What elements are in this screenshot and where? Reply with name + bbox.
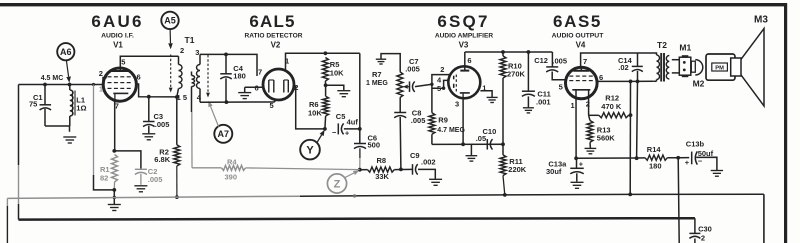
svg-text:33K: 33K: [375, 172, 389, 181]
node pin5 link: [442, 87, 445, 90]
tube V4 envelope: [566, 67, 598, 99]
V4 grid dashes: [569, 76, 593, 81]
svg-text:M2: M2: [693, 79, 705, 89]
tube V1 envelope: [103, 68, 136, 101]
node R12 at riser: [629, 113, 633, 117]
svg-text:10K: 10K: [330, 68, 344, 77]
wire V4 pin6 screen row: [597, 80, 654, 82]
arrow from Z to detector output node: [344, 170, 359, 178]
label R10: [508, 62, 522, 71]
label R2: [159, 148, 169, 157]
label C12 value: [552, 57, 567, 66]
node R1 bottom: [112, 188, 116, 192]
label C1: [33, 93, 43, 102]
label R8: [377, 156, 387, 165]
label R13 value 560K: [597, 134, 616, 143]
svg-text:+: +: [345, 129, 350, 138]
label R6 value: [308, 108, 322, 117]
T1 right core dashed: [206, 55, 210, 98]
svg-text:6AU6: 6AU6: [91, 12, 143, 31]
pin 4 label T1: [197, 93, 202, 102]
resistor R14: [645, 155, 678, 160]
wire V3 cathode row: [432, 143, 503, 145]
node pin3 row: [461, 142, 465, 146]
label C13a: [548, 159, 567, 168]
V3 cathode: [460, 93, 470, 98]
svg-text:6SQ7: 6SQ7: [437, 12, 489, 31]
label R9 value 4.7 MEG: [437, 127, 465, 134]
label M1: [679, 43, 691, 53]
ground below C9: [429, 179, 442, 185]
svg-text:C30: C30: [698, 225, 712, 234]
svg-text:AUDIO OUTPUT: AUDIO OUTPUT: [552, 33, 605, 40]
wire V4 pin1 cathode down: [575, 90, 577, 159]
label C6 value 500: [368, 141, 381, 150]
svg-text:A7: A7: [218, 129, 230, 139]
svg-text:T2: T2: [657, 40, 667, 50]
wire V2 pin1 up: [286, 53, 360, 69]
callout Z: [327, 174, 346, 193]
svg-text:10K: 10K: [308, 108, 322, 117]
T2 primary winding: [654, 55, 660, 81]
capacitor C13b: [678, 151, 717, 170]
arrow from A5 to T1 core: [168, 29, 173, 49]
label C11 value: [536, 97, 551, 106]
border frame right edge: [784, 3, 787, 243]
V1 plate: [109, 68, 130, 71]
label C1 value 75: [29, 100, 37, 109]
callout A7: [214, 125, 232, 143]
node C4 top: [224, 53, 228, 57]
svg-text:6: 6: [137, 73, 141, 82]
C13a plus sign: [579, 162, 583, 169]
svg-text:.002: .002: [421, 157, 436, 166]
label C30 value 2: [701, 233, 705, 242]
resistor R5: [322, 58, 328, 82]
label R13: [597, 125, 611, 134]
label C7: [409, 57, 419, 66]
label C10: [483, 127, 497, 136]
capacitor C9: [413, 164, 436, 179]
wire R6 bottom: [324, 116, 327, 129]
svg-text:1: 1: [571, 101, 575, 110]
svg-text:4uf: 4uf: [347, 118, 359, 127]
C13b plus sign: [685, 158, 690, 167]
svg-text:82: 82: [100, 173, 108, 182]
label C2: [148, 167, 158, 176]
T1 tertiary lead gray: [191, 112, 193, 165]
wire detector node drop: [359, 53, 361, 129]
connector M1: [679, 55, 691, 77]
capacitor C14 in line: [632, 53, 643, 81]
node on gray bus at R1: [113, 196, 116, 199]
C5 plus sign: [345, 129, 350, 138]
svg-text:T1: T1: [185, 35, 195, 45]
label R7: [372, 70, 382, 79]
node C8 bottom: [399, 168, 403, 172]
wire T1 pin3 top: [200, 54, 257, 76]
T2 secondary winding: [666, 56, 669, 80]
svg-text:+: +: [685, 158, 690, 167]
node R11 on B plus bus: [503, 193, 507, 197]
node Z junction: [358, 168, 362, 172]
label R1: [100, 165, 110, 174]
capacitor C12: [546, 52, 565, 80]
label C7 value: [405, 64, 420, 73]
svg-text:1: 1: [99, 86, 103, 93]
node T1 secondary bottom: [175, 95, 179, 99]
label C8: [412, 109, 422, 118]
wire plate to T2 primary: [638, 53, 657, 55]
arrow from A6 to grid node: [66, 61, 71, 83]
gray bus: [7, 194, 764, 198]
wire R9 bottom: [431, 134, 433, 144]
pin 3 label V3: [455, 100, 459, 109]
svg-text:−: −: [332, 128, 337, 137]
V4 plate: [573, 67, 589, 71]
label R9: [438, 115, 448, 124]
label C4 value 180: [233, 72, 246, 81]
label R11 value 220K: [508, 165, 527, 174]
wire R7 top to ground: [381, 54, 400, 72]
wire left drop gray mid: [18, 165, 20, 204]
wire V1 grid return lower: [94, 175, 115, 190]
wire R11 bottom: [503, 176, 505, 195]
T1 left winding: [177, 56, 182, 97]
svg-text:.05: .05: [476, 134, 486, 143]
resistor R1: [112, 155, 118, 183]
label V3: [459, 41, 469, 50]
label C30: [698, 225, 712, 234]
label C5: [336, 112, 346, 121]
svg-text:.005: .005: [155, 120, 170, 129]
svg-text:R7: R7: [372, 70, 382, 79]
node R5 R6 mid: [324, 83, 328, 87]
label C14 value: [618, 63, 628, 72]
pin 7 label V4: [583, 57, 587, 66]
wire T2 secondary to M1: [672, 60, 680, 73]
pin 5 label V2: [270, 101, 274, 110]
label L1 value: [76, 104, 86, 113]
svg-text:3: 3: [455, 100, 459, 109]
label V2: [271, 41, 281, 50]
svg-text:PM: PM: [715, 65, 724, 71]
svg-text:6AL5: 6AL5: [249, 12, 295, 31]
label R4 value 390: [225, 173, 238, 182]
capacitor C3: [143, 97, 155, 134]
label 4.5 MC: [41, 75, 64, 82]
svg-text:180: 180: [233, 72, 246, 81]
svg-text:C9: C9: [410, 151, 420, 160]
svg-text:RATIO DETECTOR: RATIO DETECTOR: [244, 33, 302, 40]
pin 1 label V4: [571, 101, 575, 110]
svg-text:A5: A5: [164, 16, 176, 26]
svg-text:.005: .005: [411, 116, 426, 125]
wire V2 pin6 to ground: [245, 86, 264, 88]
svg-text:C5: C5: [336, 112, 346, 121]
R7 wiper arrow: [403, 85, 410, 89]
label R12: [605, 93, 619, 102]
label M2: [693, 79, 705, 89]
svg-text:2: 2: [440, 65, 444, 74]
wire R5 R6 midpoint: [325, 81, 343, 90]
wire R2 bottom: [176, 166, 178, 197]
pin 4 label V3: [437, 75, 442, 84]
svg-text:4.5 MC: 4.5 MC: [41, 75, 64, 82]
label T1: [185, 35, 195, 45]
svg-text:220K: 220K: [508, 165, 527, 174]
ground below C13a: [571, 182, 584, 188]
label 6SQ7: [437, 12, 489, 31]
core of L1: [73, 91, 76, 116]
pin 7 label V2: [258, 68, 262, 77]
svg-text:5: 5: [121, 57, 125, 66]
pin 1 label V1: [99, 86, 103, 93]
label C11: [537, 89, 550, 98]
label 6AU6: [91, 12, 143, 31]
svg-text:3: 3: [195, 48, 199, 57]
wire junction drop to edge: [678, 158, 679, 243]
svg-text:180: 180: [649, 162, 662, 171]
V1 cathode: [113, 93, 128, 101]
V3 diode plates: [453, 76, 455, 88]
connector M2: [691, 60, 702, 75]
svg-text:5: 5: [270, 101, 274, 110]
label C8 value: [411, 116, 426, 125]
pin 6 label V3: [467, 56, 471, 65]
resistor R7 volume control: [397, 72, 403, 98]
pin 2 label T1: [180, 46, 184, 55]
label C13b: [686, 140, 705, 149]
label R14: [647, 145, 662, 154]
svg-text:AUDIO AMPLIFIER: AUDIO AMPLIFIER: [435, 33, 494, 40]
node C3 top: [147, 95, 151, 99]
svg-text:Y: Y: [306, 145, 314, 157]
resistor R9: [429, 113, 435, 135]
ground below R13: [585, 142, 597, 154]
ground below C3: [142, 134, 155, 140]
wire C1 to L1 bottom: [45, 126, 70, 132]
svg-text:1 MEG: 1 MEG: [366, 80, 388, 87]
wire V3 pins 4 5: [432, 80, 449, 88]
svg-text:R8: R8: [377, 156, 387, 165]
label RATIO DETECTOR: [244, 33, 302, 40]
label C14: [618, 56, 633, 65]
node L1 top: [68, 83, 72, 87]
svg-text:.02: .02: [618, 63, 628, 72]
pin 2 label V1: [99, 69, 103, 78]
pin 3 label T1: [195, 48, 199, 57]
resistor R11: [500, 144, 506, 175]
gray bus left vertical: [6, 198, 8, 243]
capacitor C1: [40, 85, 52, 127]
label R8 value 33K: [375, 172, 389, 181]
wire grid step: [103, 78, 107, 85]
wire cathode to C2: [114, 151, 141, 169]
pin 6 label V4: [599, 73, 603, 82]
label C3 value: [155, 120, 170, 129]
resistor R12: [589, 113, 631, 118]
svg-text:6: 6: [467, 56, 471, 65]
wire V1 grid return gray: [93, 85, 95, 176]
label M3: [754, 15, 768, 26]
svg-text:390: 390: [225, 173, 238, 182]
ground at R7 top: [376, 59, 386, 64]
capacitor C5: [338, 123, 360, 134]
label T2: [657, 40, 667, 50]
label C10 value: [476, 134, 486, 143]
capacitor C7: [410, 81, 432, 92]
svg-text:M3: M3: [754, 15, 768, 26]
arrow from Y to detector node: [317, 130, 325, 143]
label R2 value: [154, 155, 170, 164]
pin 2 label V3: [440, 65, 444, 74]
wire T1 pin5 to R2: [176, 97, 178, 145]
pin 5 label V1: [121, 57, 125, 66]
node V1 cathode junction: [112, 149, 116, 153]
resistor R13: [587, 115, 593, 142]
wire V1 pin6: [136, 84, 176, 97]
C13b minus sign: [698, 157, 703, 166]
pin 5 label V4: [559, 82, 563, 91]
wire bottom bus corner to C30: [694, 218, 696, 233]
label AUDIO I.F.: [101, 33, 134, 40]
capacitor C10: [487, 139, 503, 150]
svg-text:30uf: 30uf: [546, 167, 562, 176]
ground on pin4 wire: [238, 87, 251, 98]
pin 6 label V2: [255, 84, 259, 93]
node R2 on bus: [175, 195, 179, 199]
wire 4.5MC input: [19, 84, 104, 86]
V1 grid dashes: [108, 77, 131, 89]
ground on cathode row: [466, 144, 478, 161]
label V1: [113, 41, 123, 50]
wire left drop black upper: [18, 85, 20, 166]
wire T1 pin4 run: [200, 101, 275, 103]
label R10 value 270K: [507, 70, 526, 79]
wire V3 plate bus: [465, 51, 553, 53]
svg-text:AUDIO I.F.: AUDIO I.F.: [101, 33, 134, 40]
node V4 cathode junction: [574, 156, 578, 160]
node detector output: [358, 127, 362, 131]
svg-text:R4: R4: [227, 157, 237, 166]
wire C14 line down: [636, 81, 639, 158]
node on bus misc: [353, 194, 356, 197]
label AUDIO AMPLIFIER: [435, 33, 494, 40]
pin 2 label V4: [586, 99, 590, 108]
label C13b value 50uf: [698, 149, 714, 158]
T1 tertiary winding: [192, 72, 195, 113]
border frame top edge: [0, 3, 787, 6]
svg-text:R14: R14: [647, 145, 662, 154]
capacitor C4: [220, 54, 232, 102]
bottom bus: [19, 218, 695, 219]
wire R10 bottom to row: [502, 78, 504, 144]
wire V3 pin1 to ground: [480, 91, 492, 97]
callout A5: [161, 12, 178, 29]
node R10 top: [501, 50, 505, 54]
svg-text:270K: 270K: [507, 70, 526, 79]
ground below L1: [63, 137, 76, 143]
node C1 top: [43, 83, 47, 87]
resistor R4: [192, 165, 360, 171]
wire V1 cathode down: [114, 101, 116, 151]
label C12: [534, 56, 548, 65]
speaker magnet PM: [706, 54, 735, 80]
label R6: [309, 100, 319, 109]
wire R7 bottom to C8: [399, 98, 401, 113]
T2 core: [661, 53, 664, 82]
label R12 value 470 K: [601, 102, 622, 111]
label C9 value: [421, 157, 436, 166]
capacitor C13a: [570, 158, 584, 181]
pin 1 label V3: [482, 83, 486, 92]
wire C6 bottom gray: [359, 158, 361, 170]
wire V3 pin2: [432, 75, 450, 113]
pin 6 label V1: [137, 73, 141, 82]
label R4: [227, 157, 237, 166]
wire V4 pin7 up: [581, 53, 638, 67]
label R7 value 1 MEG: [366, 80, 388, 87]
C5 minus sign: [332, 128, 337, 137]
node cathode row C14 line: [635, 156, 639, 160]
svg-text:V1: V1: [113, 41, 123, 50]
arrow from A7 to T1 core: [208, 101, 218, 127]
pin 5 label V3: [437, 84, 441, 93]
node screen row feed: [629, 80, 633, 84]
node R14 C13b junction: [676, 156, 680, 160]
label R5 value: [330, 68, 344, 77]
resistor R10: [500, 52, 506, 78]
node screen row C14: [636, 80, 640, 84]
label C3: [154, 112, 164, 121]
T1 right winding: [197, 54, 200, 102]
label C5 value 4uf: [347, 118, 359, 127]
wire left drop black lower: [18, 204, 20, 220]
V3 plate: [460, 67, 469, 71]
ground below C11: [523, 108, 534, 113]
svg-text:1Ω: 1Ω: [76, 104, 86, 113]
svg-text:M1: M1: [679, 43, 691, 53]
label C2 value: [148, 175, 163, 184]
svg-text:2: 2: [180, 46, 184, 55]
V2 diode bars: [269, 80, 289, 93]
label V4: [576, 41, 586, 50]
wire V1 plate to T1: [120, 56, 178, 68]
svg-text:4.7 MEG: 4.7 MEG: [437, 127, 465, 134]
V4 cathode: [572, 89, 590, 91]
svg-text:A6: A6: [60, 47, 72, 57]
resistor R8: [360, 167, 412, 172]
label AUDIO OUTPUT: [552, 33, 605, 40]
capacitor C6: [354, 129, 366, 158]
callout A6: [57, 43, 74, 60]
pin 2 label V2: [294, 83, 298, 92]
label R1 value 82: [100, 173, 108, 182]
svg-text:Z: Z: [334, 178, 341, 190]
label R11: [509, 157, 522, 166]
label C9: [410, 151, 420, 160]
tube V2 envelope: [263, 69, 294, 100]
wire V4 pin2 down: [588, 90, 590, 116]
svg-text:5: 5: [559, 82, 563, 91]
wire V2 pin5 stub: [274, 99, 276, 102]
capacitor C11: [522, 52, 535, 107]
resistor R6: [323, 85, 329, 116]
svg-text:50uf: 50uf: [698, 149, 714, 158]
callout Y: [300, 140, 320, 160]
label C13a value 30uf: [546, 167, 562, 176]
